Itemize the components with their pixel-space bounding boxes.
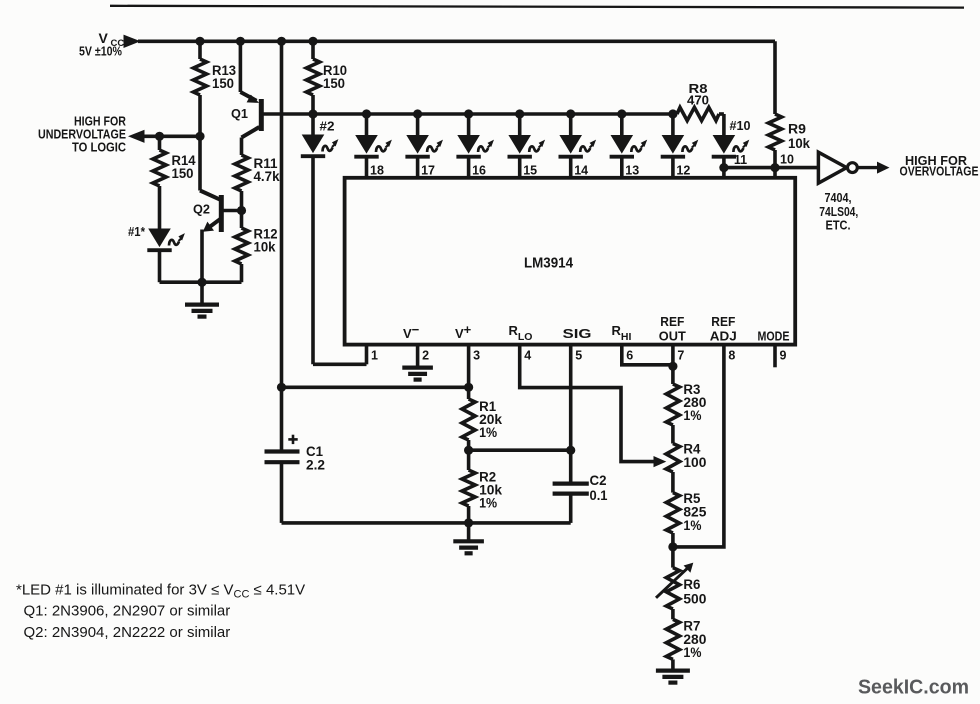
svg-text:7404,: 7404,: [825, 190, 852, 205]
svg-text:Q1: 2N3906, 2N2907 or similar: Q1: 2N3906, 2N2907 or similar: [24, 603, 231, 620]
svg-text:1: 1: [371, 349, 378, 363]
svg-text:150: 150: [172, 166, 194, 181]
svg-text:2: 2: [422, 349, 429, 363]
svg-text:5V ±10%: 5V ±10%: [79, 45, 122, 59]
svg-text:11: 11: [734, 153, 747, 167]
svg-text:REF: REF: [660, 314, 684, 329]
svg-text:C2: C2: [590, 473, 607, 488]
svg-text:TO LOGIC: TO LOGIC: [72, 140, 127, 155]
svg-text:3: 3: [473, 349, 480, 363]
svg-text:1%: 1%: [479, 425, 497, 440]
svg-text:10k: 10k: [788, 136, 810, 151]
svg-text:0.1: 0.1: [590, 488, 608, 503]
svg-text:470: 470: [687, 93, 709, 108]
svg-text:14: 14: [574, 163, 588, 177]
svg-text:10: 10: [780, 153, 794, 167]
svg-text:1%: 1%: [479, 496, 497, 511]
svg-text:17: 17: [421, 163, 435, 177]
svg-text:1%: 1%: [683, 518, 701, 533]
svg-text:13: 13: [625, 163, 639, 177]
svg-text:10k: 10k: [254, 240, 276, 255]
svg-text:100: 100: [683, 455, 706, 470]
svg-text:1%: 1%: [683, 645, 701, 660]
svg-text:#2: #2: [320, 120, 335, 134]
svg-text:16: 16: [472, 163, 486, 177]
svg-text:18: 18: [370, 163, 384, 177]
svg-text:OUT: OUT: [659, 328, 686, 343]
svg-text:6: 6: [626, 349, 633, 363]
svg-text:5: 5: [575, 349, 582, 363]
svg-text:SeekIC.com: SeekIC.com: [858, 676, 969, 699]
svg-text:500: 500: [683, 592, 706, 607]
svg-text:4.7k: 4.7k: [254, 169, 280, 184]
svg-text:LM3914: LM3914: [524, 255, 574, 272]
svg-text:8: 8: [728, 349, 735, 363]
svg-text:Q1: Q1: [231, 107, 248, 121]
svg-text:ETC.: ETC.: [826, 218, 851, 233]
svg-text:ADJ: ADJ: [710, 328, 737, 343]
svg-text:SIG: SIG: [563, 326, 592, 341]
svg-text:4: 4: [524, 349, 531, 363]
svg-text:7: 7: [677, 349, 684, 363]
svg-text:2.2: 2.2: [306, 458, 325, 473]
svg-text:150: 150: [323, 76, 345, 91]
svg-text:1%: 1%: [683, 408, 701, 423]
svg-text:12: 12: [676, 163, 690, 177]
svg-text:#1*: #1*: [128, 225, 145, 239]
svg-text:*LED #1 is illuminated for 3V: *LED #1 is illuminated for 3V ≤ VCC ≤ 4.…: [16, 581, 305, 600]
svg-text:OVERVOLTAGE: OVERVOLTAGE: [900, 164, 979, 178]
svg-text:R9: R9: [788, 122, 806, 137]
svg-text:REF: REF: [711, 314, 735, 329]
svg-text:#10: #10: [730, 119, 751, 133]
svg-text:Q2: Q2: [193, 203, 210, 217]
svg-text:MODE: MODE: [758, 328, 790, 343]
svg-text:9: 9: [780, 349, 787, 363]
svg-text:Q2: 2N3904, 2N2222 or similar: Q2: 2N3904, 2N2222 or similar: [24, 624, 231, 641]
svg-text:R6: R6: [683, 577, 700, 592]
svg-text:15: 15: [523, 163, 537, 177]
svg-text:150: 150: [212, 76, 234, 91]
